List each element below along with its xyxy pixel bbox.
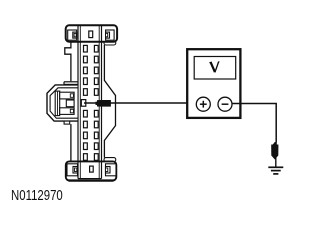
bottom right lip <box>104 158 116 162</box>
left profile lower segment <box>70 124 72 161</box>
voltmeter display <box>194 57 236 80</box>
bottom-right bracket <box>106 164 117 176</box>
right wing <box>104 45 115 158</box>
ground lead <box>275 157 277 167</box>
top-right bracket <box>106 30 115 40</box>
connector bottom cap <box>66 161 117 180</box>
left plug foot <box>64 121 70 124</box>
ground symbol <box>268 167 283 174</box>
pin hole top single <box>89 31 93 38</box>
pin holes pairs <box>81 45 98 160</box>
plus terminal <box>196 97 210 111</box>
left plug outer outline <box>47 85 78 121</box>
wire connector to voltmeter <box>84 102 196 104</box>
top-left bracket <box>68 30 77 40</box>
left plug bottom arm <box>60 108 74 115</box>
wire voltmeter to ground drop <box>232 104 276 143</box>
left plug inner outline <box>50 88 77 118</box>
left profile bump <box>65 42 71 82</box>
connector body column <box>78 25 102 178</box>
left plug terminal bar <box>55 91 60 116</box>
figure number label <box>11 187 63 204</box>
pin hole bottom single <box>90 166 94 172</box>
probe on ground wire <box>271 142 278 160</box>
bottom-left bracket <box>67 164 78 176</box>
left plug top tab <box>64 82 78 85</box>
minus terminal <box>218 97 232 111</box>
voltmeter box U1 <box>187 49 240 118</box>
connector top cap <box>66 25 117 41</box>
left plug middle tab <box>66 100 74 107</box>
probe tip on connector pin <box>96 100 111 107</box>
left plug top arm <box>60 92 74 99</box>
top right lip <box>104 41 116 45</box>
voltmeter V label <box>209 62 219 73</box>
